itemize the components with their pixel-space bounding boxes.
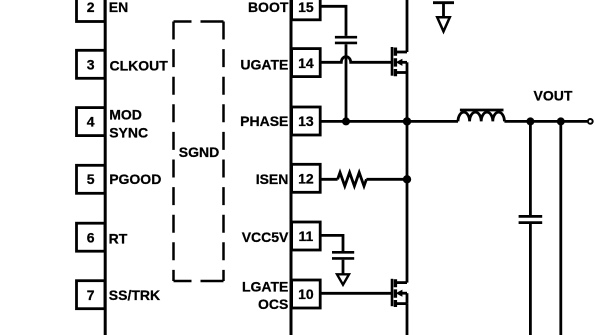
ground C3 — [337, 274, 349, 284]
node LGATE OCS label — [242, 279, 288, 313]
pin 13 box — [292, 107, 321, 135]
capacitor C3 — [332, 252, 354, 258]
svg-text:EN: EN — [109, 0, 128, 15]
pin 14 box — [292, 49, 321, 77]
pin 2 box — [77, 0, 106, 22]
pin 11 box — [292, 222, 321, 250]
svg-text:7: 7 — [87, 287, 95, 303]
svg-text:6: 6 — [87, 229, 95, 245]
wire Q1 source to PHASE — [406, 62, 409, 121]
wire PHASE to Q2 drain — [406, 121, 409, 282]
pin 5 box — [77, 165, 106, 193]
op-amp U1 — [105, 0, 291, 335]
svg-text:UGATE: UGATE — [240, 57, 288, 73]
node SGND dashed region — [174, 22, 224, 282]
transistor Q1 — [392, 47, 407, 76]
pin 10 box — [292, 280, 321, 308]
node junction VOUT-load — [557, 117, 565, 125]
svg-text:12: 12 — [298, 170, 314, 186]
wire Q2 source to ground (bottom) — [406, 304, 409, 335]
pin 12 box — [292, 164, 321, 192]
wire Q2 body-source — [406, 293, 409, 303]
svg-text:ISEN: ISEN — [256, 171, 289, 187]
svg-text:SGND: SGND — [179, 144, 219, 160]
svg-text:CLKOUT: CLKOUT — [110, 58, 169, 74]
wire BOOT pin15 to C1 — [320, 6, 346, 36]
wire ISEN pin12 to R1 — [320, 178, 337, 181]
svg-text:3: 3 — [87, 56, 95, 72]
svg-text:5: 5 — [87, 171, 95, 187]
svg-text:VCC5V: VCC5V — [242, 229, 289, 245]
svg-text:RT: RT — [109, 230, 128, 246]
wire R1 to switch node — [366, 178, 407, 181]
node MOD SYNC label — [109, 107, 148, 141]
svg-text:PHASE: PHASE — [240, 113, 288, 129]
resistor R1 — [338, 173, 367, 187]
svg-text:4: 4 — [87, 114, 95, 130]
wire load branch — [559, 121, 562, 335]
pin 6 box — [77, 223, 106, 251]
node junction ISEN — [403, 175, 411, 183]
svg-text:15: 15 — [298, 0, 314, 15]
node junction PHASE-Q1 — [403, 117, 411, 125]
svg-text:PGOOD: PGOOD — [109, 171, 161, 187]
wire C1 to PHASE node — [345, 44, 348, 121]
svg-text:SYNC: SYNC — [109, 125, 148, 141]
wire C2 bottom — [529, 224, 532, 335]
pin 15 box — [292, 0, 321, 20]
svg-text:2: 2 — [87, 0, 95, 15]
svg-text:SS/TRK: SS/TRK — [109, 287, 160, 303]
svg-text:LGATE: LGATE — [242, 279, 288, 295]
wire IC right edge — [290, 0, 293, 335]
wire VCC5V pin11 to C3 — [320, 235, 343, 251]
wire LGATE pin10 to Q2 gate — [320, 292, 391, 295]
node junction VOUT-C2 — [526, 117, 534, 125]
capacitor C1 bootstrap — [335, 37, 357, 43]
pin 4 box — [77, 108, 106, 136]
svg-text:BOOT: BOOT — [248, 0, 289, 15]
svg-text:14: 14 — [298, 55, 314, 71]
ground top — [433, 3, 454, 32]
pin 3 box — [77, 50, 106, 78]
wire inductor to VOUT terminal — [504, 120, 587, 123]
transistor Q2 — [392, 279, 407, 307]
inductor L1 — [458, 110, 504, 121]
svg-text:11: 11 — [298, 228, 313, 244]
svg-text:10: 10 — [298, 286, 314, 302]
pin 7 box — [77, 281, 106, 309]
node VOUT terminal — [588, 119, 593, 124]
wire C2 top — [529, 121, 532, 215]
svg-text:VOUT: VOUT — [534, 88, 573, 104]
wire UGATE pin14 to Q1 gate with hop — [320, 57, 391, 63]
svg-text:MOD: MOD — [109, 107, 142, 123]
wire IC left edge — [104, 0, 107, 335]
wire Q1 drain to VIN (top) — [406, 0, 409, 52]
node junction PHASE-C1 — [342, 117, 350, 125]
wire PHASE pin13 to inductor — [320, 120, 458, 123]
svg-text:13: 13 — [298, 113, 314, 129]
capacitor C2 output — [519, 216, 543, 222]
wire C3 to ground — [342, 260, 345, 274]
svg-text:OCS: OCS — [258, 296, 288, 312]
